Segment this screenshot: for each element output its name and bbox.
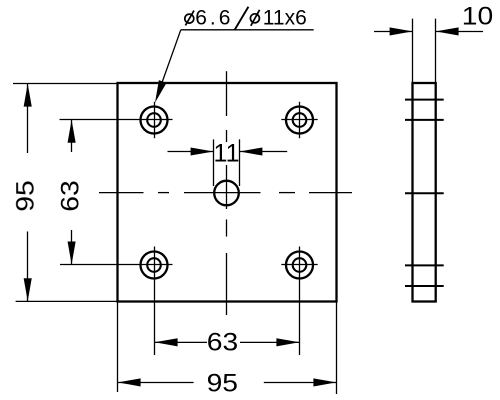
extension line right plate edge (for 95 bottom) bbox=[336, 302, 338, 395]
svg-text:11x6: 11x6 bbox=[263, 6, 307, 29]
extension line bottom edge (for 95 left) bbox=[16, 300, 118, 302]
side view hole line 5 bbox=[405, 285, 444, 287]
side view outline bbox=[413, 83, 436, 302]
extension line upper hole row (for 63 left) bbox=[60, 119, 173, 121]
svg-text:95: 95 bbox=[11, 180, 39, 211]
dimension 11 (center hole) bbox=[168, 139, 288, 186]
vertical centerline bbox=[226, 71, 228, 315]
leader line for hole callout bbox=[155, 30, 314, 103]
side view hole line 4 bbox=[405, 264, 444, 266]
center hole bbox=[214, 181, 239, 206]
svg-text:63: 63 bbox=[56, 180, 84, 211]
hole callout text Ø6.6/Ø11x6 bbox=[185, 6, 307, 30]
extension line left plate edge (for 95 bottom) bbox=[117, 302, 119, 393]
svg-text:63: 63 bbox=[207, 328, 238, 356]
hole top-right (counterbored) bbox=[281, 102, 317, 138]
side view hole line 2 bbox=[405, 119, 444, 121]
hole top-left (counterbored) bbox=[141, 102, 168, 138]
side view hole line 3 bbox=[405, 192, 444, 194]
plate outline (front view) bbox=[118, 83, 337, 302]
hole bottom-right (counterbored) bbox=[281, 252, 317, 279]
svg-text:95: 95 bbox=[207, 369, 238, 397]
dimension 10 (thickness) bbox=[374, 2, 493, 83]
svg-text:11: 11 bbox=[214, 139, 240, 167]
hole bottom-left (counterbored) bbox=[141, 252, 168, 279]
svg-text:6.6: 6.6 bbox=[195, 6, 233, 29]
extension line lower hole row (for 63 left) bbox=[60, 264, 173, 266]
side view hole line 1 bbox=[405, 99, 444, 101]
dimension 95 left bbox=[11, 84, 39, 302]
dimension 95 bottom bbox=[118, 369, 337, 397]
svg-text:10: 10 bbox=[462, 2, 493, 30]
extension line left hole column (for 63 bottom) bbox=[154, 247, 156, 356]
dimension 63 left bbox=[56, 120, 84, 265]
horizontal centerline bbox=[99, 192, 352, 194]
extension line right hole column (for 63 bottom) bbox=[299, 247, 301, 356]
extension line top edge (for 95 left) bbox=[13, 83, 118, 85]
dimension 63 bottom bbox=[155, 328, 300, 356]
